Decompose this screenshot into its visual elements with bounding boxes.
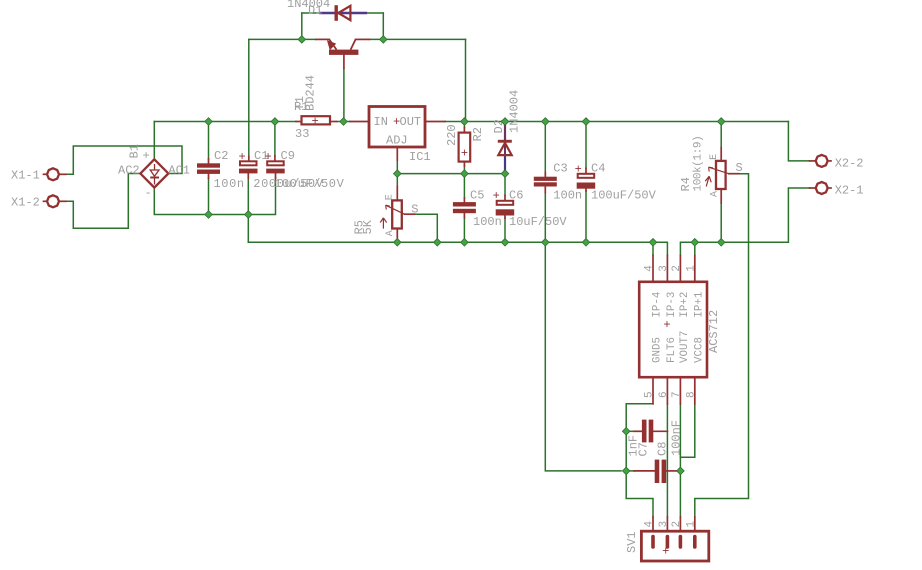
pin stub X2-2 — [810, 160, 817, 162]
pin stub IC1 ADJ — [396, 147, 398, 160]
wire ACS pin1 from rail junction — [694, 242, 696, 255]
svg-text:C3: C3 — [553, 161, 567, 175]
junction node bottom rail C5 — [461, 239, 469, 247]
pin stub X1-1 — [59, 173, 67, 175]
wire D1 top left green — [302, 12, 321, 14]
svg-text:3: 3 — [658, 265, 670, 272]
capacitor C9 — [266, 161, 285, 173]
pin stub ACS712 pin6 — [666, 377, 668, 404]
wire C5 bottom to rail — [463, 218, 465, 243]
svg-text:6: 6 — [658, 391, 670, 398]
pin stub T1 collector horizontal — [356, 38, 370, 40]
pin stub SV1 pin3 — [666, 517, 668, 531]
wire C2 top vertical — [208, 122, 210, 159]
pin stub SV1 pin1 — [694, 517, 696, 531]
wire R2 top from rail — [463, 122, 465, 128]
wire C6 top vertical — [504, 174, 506, 196]
svg-text:5: 5 — [644, 391, 656, 398]
junction node y39 right — [380, 36, 388, 44]
pin stub IC1 OUT — [425, 121, 445, 123]
junction node rail C4 top — [582, 118, 590, 126]
potentiometer R4 — [705, 161, 729, 189]
voltage regulator IC1 — [369, 107, 425, 148]
capacitor C8 — [655, 460, 666, 483]
pin stub C4 bottom — [585, 187, 587, 191]
junction node IC1 OUT R2 — [461, 118, 469, 126]
pin stub R5 S — [405, 213, 415, 215]
wire emitter net y39 horizontal — [249, 38, 316, 40]
wire top rail left section — [154, 121, 296, 123]
pin stub C1 top — [248, 157, 250, 166]
junction node bottom rail C6 — [501, 239, 509, 247]
wire C7 left connection — [626, 430, 634, 432]
svg-text:10uF/50V: 10uF/50V — [509, 215, 567, 229]
wire C6 bottom to rail — [504, 218, 506, 242]
svg-text:X2-1: X2-1 — [835, 184, 864, 198]
wire R4 wiper S down to SV1 pin1 — [695, 174, 749, 517]
diode D2 — [498, 140, 512, 155]
svg-text:S: S — [411, 203, 418, 217]
pin stub C5 bottom — [463, 213, 465, 217]
wire C8 right junction down to SV1 pin2 — [679, 471, 681, 517]
wire C4 bottom to rail — [585, 191, 587, 242]
svg-text:X1-2: X1-2 — [11, 196, 40, 210]
svg-text:+: + — [575, 162, 582, 176]
capacitor C6 — [496, 201, 515, 216]
junction node bottom rail S — [434, 239, 442, 247]
junction node rail R4 top — [717, 118, 725, 126]
svg-text:A: A — [709, 191, 720, 197]
wire R4 bottom to rail — [720, 203, 722, 242]
wire C8 right connection — [678, 470, 681, 472]
capacitor C4 — [577, 174, 596, 189]
pin stub R5 bottom — [396, 229, 398, 239]
pin stub ACS712 pin1 — [694, 256, 696, 282]
wire top rail right section — [464, 121, 788, 123]
wire C2 bottom vertical — [208, 178, 210, 214]
connector pad X1-1 — [47, 168, 59, 180]
svg-text:IP-3: IP-3 — [666, 292, 678, 318]
svg-text:AC1: AC1 — [168, 163, 190, 177]
wire C3 bottom to rail — [544, 193, 546, 243]
svg-text:100n: 100n — [473, 215, 502, 229]
svg-text:FLT6: FLT6 — [666, 337, 678, 363]
wire purple D1 horizontal overlap — [320, 12, 366, 14]
junction node rail C2 top — [205, 118, 213, 126]
wire ACS pin5 jog to C7 C8 chain — [626, 404, 653, 471]
wire C3 top vertical — [544, 122, 546, 177]
junction node R1 IC1 T1 base — [340, 118, 348, 126]
transistor Q1 T1 BD244 — [327, 39, 359, 54]
svg-text:AC2: AC2 — [118, 163, 140, 177]
svg-text:100n: 100n — [553, 189, 582, 203]
wire C5 top vertical — [463, 174, 465, 198]
svg-text:R4: R4 — [679, 177, 693, 191]
svg-text:100uF/50V: 100uF/50V — [591, 189, 657, 203]
pin stub ACS712 pin8 — [694, 377, 696, 404]
wire purple D2 top segment — [504, 122, 506, 140]
svg-text:X2-2: X2-2 — [835, 156, 864, 170]
pin stub X1-2 — [59, 200, 67, 202]
svg-text:GND5: GND5 — [652, 337, 664, 363]
bridge rectifier B1 — [140, 159, 168, 187]
junction node mid rail C1 — [245, 211, 253, 219]
resistor R1 — [302, 116, 331, 124]
wire R5 bottom to rail — [396, 238, 398, 242]
svg-text:VCC8: VCC8 — [694, 337, 706, 363]
svg-text:ACS712: ACS712 — [707, 310, 721, 353]
svg-text:5K: 5K — [361, 219, 375, 234]
pin stub ACS712 pin7 — [679, 377, 681, 404]
svg-text:+: + — [143, 149, 150, 163]
wire collector net y39 horizontal — [370, 38, 466, 40]
wire GND chain down to SV1 pin4 — [626, 471, 653, 517]
pin stub ACS712 pin5 — [652, 377, 654, 404]
capacitor C2 — [197, 163, 220, 174]
pin stub C8 right — [666, 470, 677, 472]
pin stub R5 top — [396, 187, 398, 201]
wire C8 left connection — [626, 470, 634, 472]
svg-text:+: + — [461, 146, 468, 160]
wire D1 top right green — [366, 12, 383, 14]
wire X1-2 to bridge AC2 — [60, 174, 141, 229]
junction node bottom rail ACS pin4 — [649, 239, 657, 247]
connector pad X2-2 — [816, 155, 828, 167]
wire GND feed from rail down to C8 net — [545, 242, 621, 471]
pin stub T1 base — [343, 55, 345, 68]
pin stub R2 bottom — [463, 162, 465, 166]
wire X1-1 to bridge AC1 — [60, 146, 183, 174]
wire C1 bottom vertical through junction to bottom rail — [247, 178, 249, 242]
wire bridge bottom to mid rail — [154, 178, 275, 215]
svg-text:+: + — [239, 150, 246, 164]
svg-text:S: S — [736, 161, 743, 175]
svg-text:2: 2 — [671, 521, 683, 528]
potentiometer R5 — [380, 200, 404, 228]
junction node ADJ R2 C5 — [461, 170, 469, 178]
svg-text:IP+1: IP+1 — [694, 292, 706, 318]
resistor R2 — [459, 133, 471, 162]
svg-text:C8: C8 — [656, 442, 670, 456]
capacitor C7 — [642, 420, 653, 443]
wire ADJ net horizontal — [397, 173, 505, 175]
svg-text:+: + — [663, 318, 670, 332]
junction node rail C3 top — [542, 118, 550, 126]
wire ACS pin4 from rail junction — [652, 242, 654, 255]
svg-text:100uF/50V: 100uF/50V — [274, 177, 344, 191]
svg-text:OUT: OUT — [400, 115, 422, 129]
junction node C8 left — [622, 467, 630, 475]
svg-text:100k(1:9): 100k(1:9) — [693, 136, 705, 192]
IC ACS712 — [639, 282, 707, 377]
connector pad X2-1 — [816, 182, 828, 194]
svg-text:2: 2 — [671, 265, 683, 272]
pin stub C5 top — [463, 198, 465, 202]
pin stub C3 bottom — [544, 187, 546, 192]
junction node C7 left — [622, 428, 630, 436]
wire R1 right to IC1 IN — [337, 121, 351, 123]
svg-text:100nF: 100nF — [670, 420, 684, 456]
pin stub C2 top — [208, 159, 210, 164]
junction node mid rail C2 — [205, 211, 213, 219]
wire rail corner down to X2-2 — [788, 122, 809, 161]
pin stub R1 left — [296, 121, 302, 123]
svg-text:B1: B1 — [127, 144, 141, 158]
wire purple D2 bottom segment — [504, 155, 506, 173]
svg-text:ADJ: ADJ — [386, 133, 408, 147]
svg-text:33: 33 — [295, 127, 309, 141]
svg-text:220: 220 — [445, 124, 459, 146]
junction node bottom rail C4 — [582, 239, 590, 247]
capacitor C5 — [453, 202, 476, 213]
pin stub IC1 IN — [350, 121, 369, 123]
junction node bottom rail R5 — [394, 239, 402, 247]
capacitor C3 — [534, 177, 557, 187]
svg-text:+: + — [493, 189, 500, 203]
pin stub R1 right — [330, 121, 337, 123]
svg-text:E: E — [385, 194, 396, 200]
svg-text:IP-4: IP-4 — [652, 292, 664, 318]
pin stub ACS712 pin2 — [679, 256, 681, 282]
svg-text:-: - — [145, 186, 152, 200]
svg-text:7: 7 — [671, 391, 683, 398]
connector SV1 — [641, 531, 708, 561]
junction node rail D2 top — [501, 118, 509, 126]
svg-text:IN: IN — [374, 115, 388, 129]
svg-text:R1: R1 — [294, 100, 308, 114]
junction node bottom rail R4 — [717, 239, 725, 247]
pin stub C7 right — [653, 430, 667, 432]
pin stub C7 left — [634, 430, 642, 432]
wire C9 top vertical — [274, 122, 276, 156]
pin stub C6 bottom — [504, 214, 506, 218]
svg-text:+: + — [265, 150, 272, 164]
svg-text:4: 4 — [644, 521, 656, 528]
pin stub SV1 pin2 — [679, 517, 681, 531]
svg-text:R2: R2 — [471, 127, 485, 141]
junction node ADJ R5 — [394, 170, 402, 178]
pin stub T1 emitter horizontal — [316, 38, 329, 40]
svg-text:C2: C2 — [214, 149, 228, 163]
junction node C8 right — [677, 467, 685, 475]
svg-text:IP+2: IP+2 — [679, 292, 691, 318]
svg-text:C9: C9 — [281, 149, 295, 163]
pin stub C1 bottom — [247, 173, 249, 178]
pin stub C9 top — [274, 156, 276, 165]
svg-text:100n: 100n — [214, 177, 245, 191]
pin stub X2-1 — [810, 187, 817, 189]
capacitor C1 — [239, 161, 258, 173]
pin stub C8 left — [634, 470, 655, 472]
svg-text:C6: C6 — [509, 189, 523, 203]
svg-text:SV1: SV1 — [625, 531, 639, 553]
svg-text:+: + — [662, 545, 669, 559]
svg-text:1N4004: 1N4004 — [508, 90, 522, 133]
pin stub R4 bottom — [720, 189, 722, 203]
pin stub ACS712 pin4 — [652, 256, 654, 282]
svg-text:1: 1 — [685, 265, 697, 272]
diode D1 — [335, 5, 351, 21]
wire ADJ net vertical IC1 to R5 — [396, 160, 398, 187]
wire bottom rail right segment — [680, 188, 809, 256]
svg-text:X1-1: X1-1 — [11, 169, 40, 183]
svg-text:IC1: IC1 — [409, 150, 431, 164]
junction node bottom rail ACS pin1 — [691, 239, 699, 247]
pin stub C6 top — [504, 196, 506, 205]
wire jog pin7 pin8 — [680, 404, 694, 457]
svg-text:1: 1 — [685, 521, 697, 528]
pin stub R2 top — [463, 128, 465, 133]
pin stub R4 top — [720, 148, 722, 161]
wire ACS pin6 down to SV1 pin3 — [666, 404, 668, 517]
svg-text:3: 3 — [658, 521, 670, 528]
wire ACS pin7 down to jog — [679, 404, 681, 457]
pin stub R4 S — [729, 173, 739, 175]
junction node y39 left — [298, 36, 306, 44]
junction node rail C9 top — [271, 118, 279, 126]
svg-text:C7: C7 — [637, 442, 651, 456]
wire D1 loop left vertical — [301, 13, 303, 39]
svg-text:+: + — [312, 115, 319, 129]
wire T1 base vertical — [343, 68, 345, 122]
svg-text:8: 8 — [685, 391, 697, 398]
wire C4 top vertical — [585, 122, 587, 169]
svg-text:C4: C4 — [591, 161, 605, 175]
pin stub C3 top — [544, 173, 546, 177]
pin stub C2 bottom — [208, 174, 210, 178]
wire bridge top vertical — [153, 122, 155, 160]
pin stub C9 bottom — [275, 173, 277, 178]
svg-text:D1: D1 — [308, 4, 322, 18]
wire R4 top vertical — [720, 122, 722, 148]
wire collector net down to OUT junction — [465, 39, 467, 121]
wire bottom rail left segment — [248, 242, 667, 255]
wire D1 loop right vertical — [382, 13, 384, 39]
pin stub ACS712 pin3 — [666, 256, 668, 282]
junction node ADJ D2 C6 — [501, 170, 509, 178]
svg-text:A: A — [385, 230, 396, 236]
wire R2 bottom to ADJ net — [463, 166, 465, 174]
svg-text:E: E — [709, 154, 720, 160]
svg-text:+: + — [393, 115, 400, 129]
wire IC1 OUT to rail — [445, 121, 464, 123]
pin stub SV1 pin4 — [652, 517, 654, 531]
junction node bottom rail C3 GND feed — [542, 239, 550, 247]
svg-text:C5: C5 — [470, 189, 484, 203]
svg-text:VOUT7: VOUT7 — [679, 331, 691, 363]
wire C8 right junction up to jog — [679, 457, 681, 471]
pin stub C4 top — [585, 168, 587, 177]
svg-text:4: 4 — [644, 265, 656, 272]
wire R5 wiper S horizontal and down — [415, 214, 438, 242]
connector pad X1-2 — [47, 195, 59, 207]
wire C1 plus vertical from y39 crossing rail — [248, 39, 250, 156]
